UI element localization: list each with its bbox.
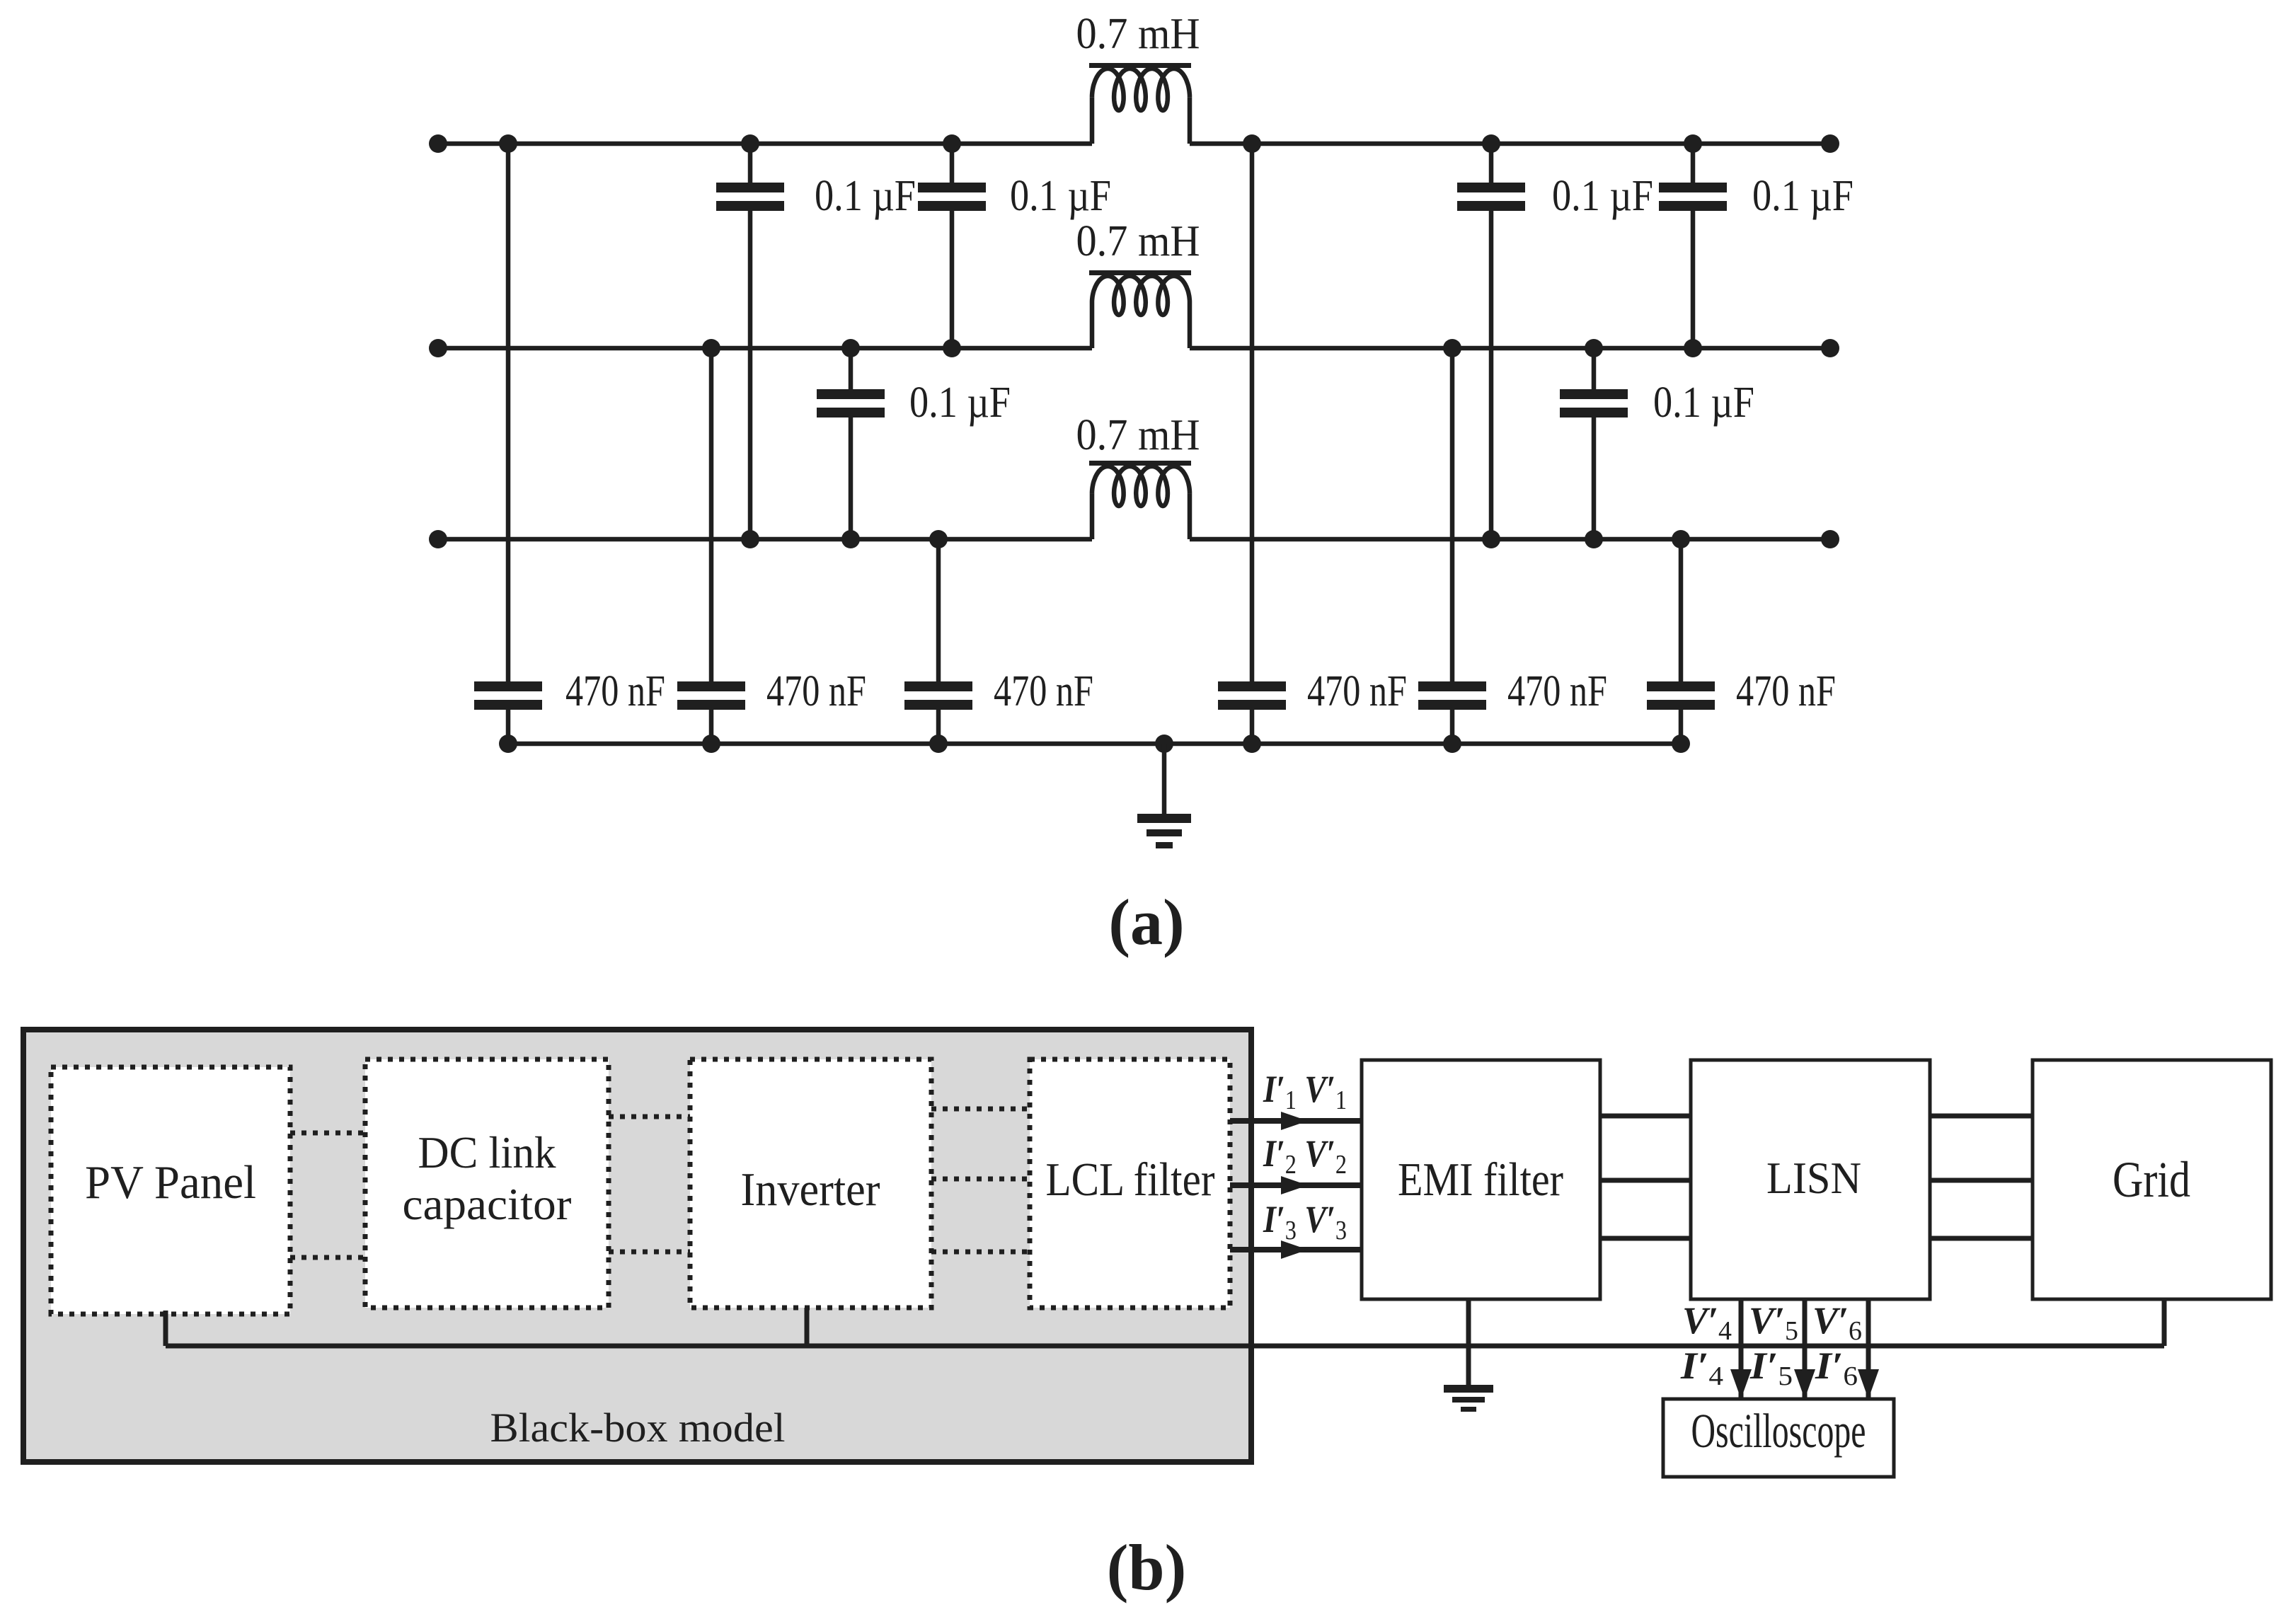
svg-text:LISN: LISN [1766,1153,1861,1203]
svg-text:I′5: I′5 [1749,1344,1793,1391]
svg-text:PV Panel: PV Panel [85,1156,256,1209]
svg-text:I′6: I′6 [1815,1344,1858,1391]
svg-text:0.1 µF: 0.1 µF [909,379,1011,427]
svg-text:470 nF: 470 nF [1307,667,1407,715]
svg-text:DC link: DC link [418,1128,556,1177]
svg-text:EMI filter: EMI filter [1398,1153,1563,1206]
svg-text:Grid: Grid [2113,1151,2190,1208]
svg-text:V′4: V′4 [1682,1299,1732,1346]
svg-text:0.1 µF: 0.1 µF [815,172,916,220]
svg-text:470 nF: 470 nF [565,667,665,715]
svg-text:V′5: V′5 [1749,1299,1798,1346]
svg-text:0.1 µF: 0.1 µF [1552,172,1653,220]
svg-text:0.1 µF: 0.1 µF [1653,379,1754,427]
svg-text:470 nF: 470 nF [1507,667,1607,715]
svg-text:I′2 V′2: I′2 V′2 [1263,1132,1347,1180]
svg-text:LCL filter: LCL filter [1046,1153,1215,1206]
svg-text:Inverter: Inverter [741,1163,880,1216]
svg-text:470 nF: 470 nF [1736,667,1836,715]
svg-text:470 nF: 470 nF [766,667,866,715]
svg-text:0.7 mH: 0.7 mH [1076,411,1200,459]
svg-text:capacitor: capacitor [403,1180,572,1229]
svg-text:0.7 mH: 0.7 mH [1076,217,1200,265]
svg-text:0.7 mH: 0.7 mH [1076,10,1200,58]
svg-text:(b): (b) [1107,1531,1186,1603]
svg-text:(a): (a) [1108,886,1184,958]
svg-text:V′6: V′6 [1812,1299,1862,1346]
svg-text:470 nF: 470 nF [994,667,1093,715]
svg-text:0.1 µF: 0.1 µF [1010,172,1111,220]
svg-text:Oscilloscope: Oscilloscope [1691,1404,1866,1458]
svg-text:Black-box model: Black-box model [490,1405,786,1451]
svg-text:I′3 V′3: I′3 V′3 [1263,1198,1347,1245]
svg-text:I′4: I′4 [1680,1344,1723,1391]
svg-text:I′1 V′1: I′1 V′1 [1263,1068,1347,1115]
svg-text:0.1 µF: 0.1 µF [1752,172,1854,220]
